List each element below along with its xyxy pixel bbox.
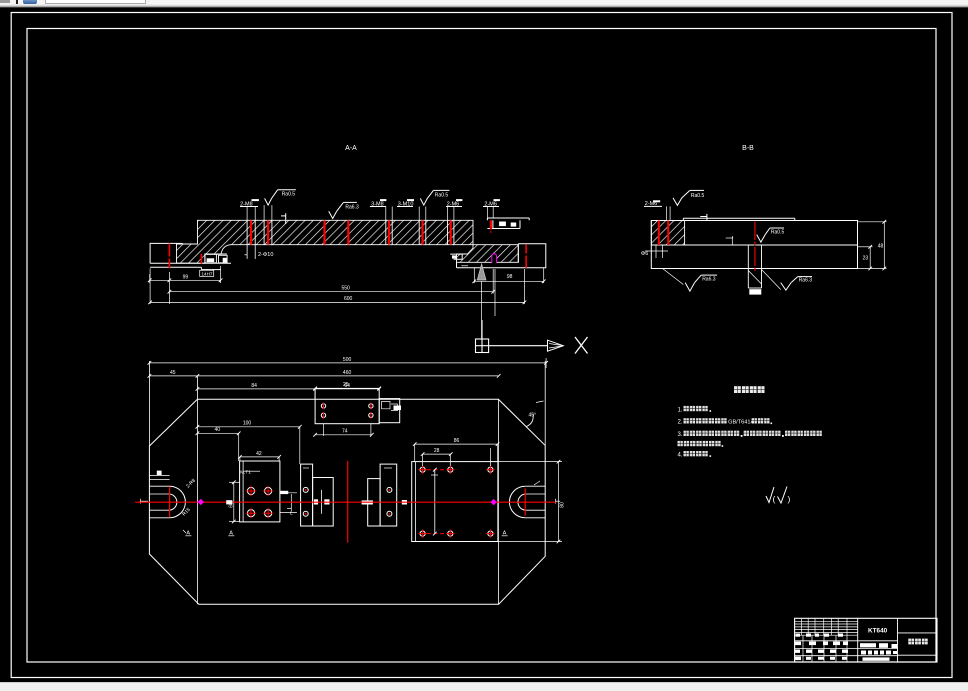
svg-text:Ra0.5: Ra0.5 bbox=[691, 193, 705, 199]
svg-text:45°: 45° bbox=[529, 413, 537, 419]
svg-text:Ra6.3: Ra6.3 bbox=[799, 278, 813, 284]
svg-text:M,T1: M,T1 bbox=[240, 469, 251, 474]
svg-text:Φ6: Φ6 bbox=[641, 251, 648, 257]
svg-text:2-Φ10: 2-Φ10 bbox=[258, 252, 273, 258]
svg-text:A-A: A-A bbox=[345, 145, 357, 152]
svg-text:600: 600 bbox=[344, 296, 353, 302]
svg-text:1.: 1. bbox=[678, 407, 683, 413]
svg-text:500: 500 bbox=[343, 357, 352, 363]
svg-text:Ra0.5: Ra0.5 bbox=[435, 192, 449, 198]
svg-text:98: 98 bbox=[507, 274, 513, 280]
svg-text:2.: 2. bbox=[678, 420, 683, 426]
svg-text:23: 23 bbox=[863, 256, 869, 262]
svg-text:(: ( bbox=[773, 494, 776, 504]
svg-text:42: 42 bbox=[256, 451, 262, 457]
svg-text:Ra0.5: Ra0.5 bbox=[771, 230, 785, 236]
svg-text:25: 25 bbox=[343, 382, 349, 388]
svg-text:Ra0.5: Ra0.5 bbox=[282, 192, 296, 198]
svg-text:): ) bbox=[788, 494, 791, 504]
svg-text:40: 40 bbox=[215, 427, 221, 433]
svg-text:84: 84 bbox=[251, 383, 257, 389]
svg-text:99: 99 bbox=[183, 274, 189, 280]
svg-text:Ra6.3: Ra6.3 bbox=[702, 277, 716, 283]
svg-text:86: 86 bbox=[454, 438, 460, 444]
svg-text:3.: 3. bbox=[678, 432, 683, 438]
svg-text:GB/T6414: GB/T6414 bbox=[728, 420, 754, 426]
svg-text:550: 550 bbox=[342, 286, 351, 292]
svg-text:80: 80 bbox=[560, 502, 566, 508]
svg-text:KT640: KT640 bbox=[868, 628, 888, 635]
svg-text:48: 48 bbox=[878, 244, 884, 250]
svg-text:4.: 4. bbox=[678, 452, 683, 458]
svg-text:B-B: B-B bbox=[742, 145, 754, 152]
svg-text:14H7: 14H7 bbox=[202, 271, 213, 276]
svg-text:460: 460 bbox=[343, 370, 352, 376]
svg-text:28: 28 bbox=[434, 448, 440, 454]
svg-text:Ra6.3: Ra6.3 bbox=[345, 204, 359, 210]
svg-text:74: 74 bbox=[342, 428, 348, 434]
svg-text:45: 45 bbox=[170, 370, 176, 376]
svg-text:100: 100 bbox=[243, 420, 252, 426]
